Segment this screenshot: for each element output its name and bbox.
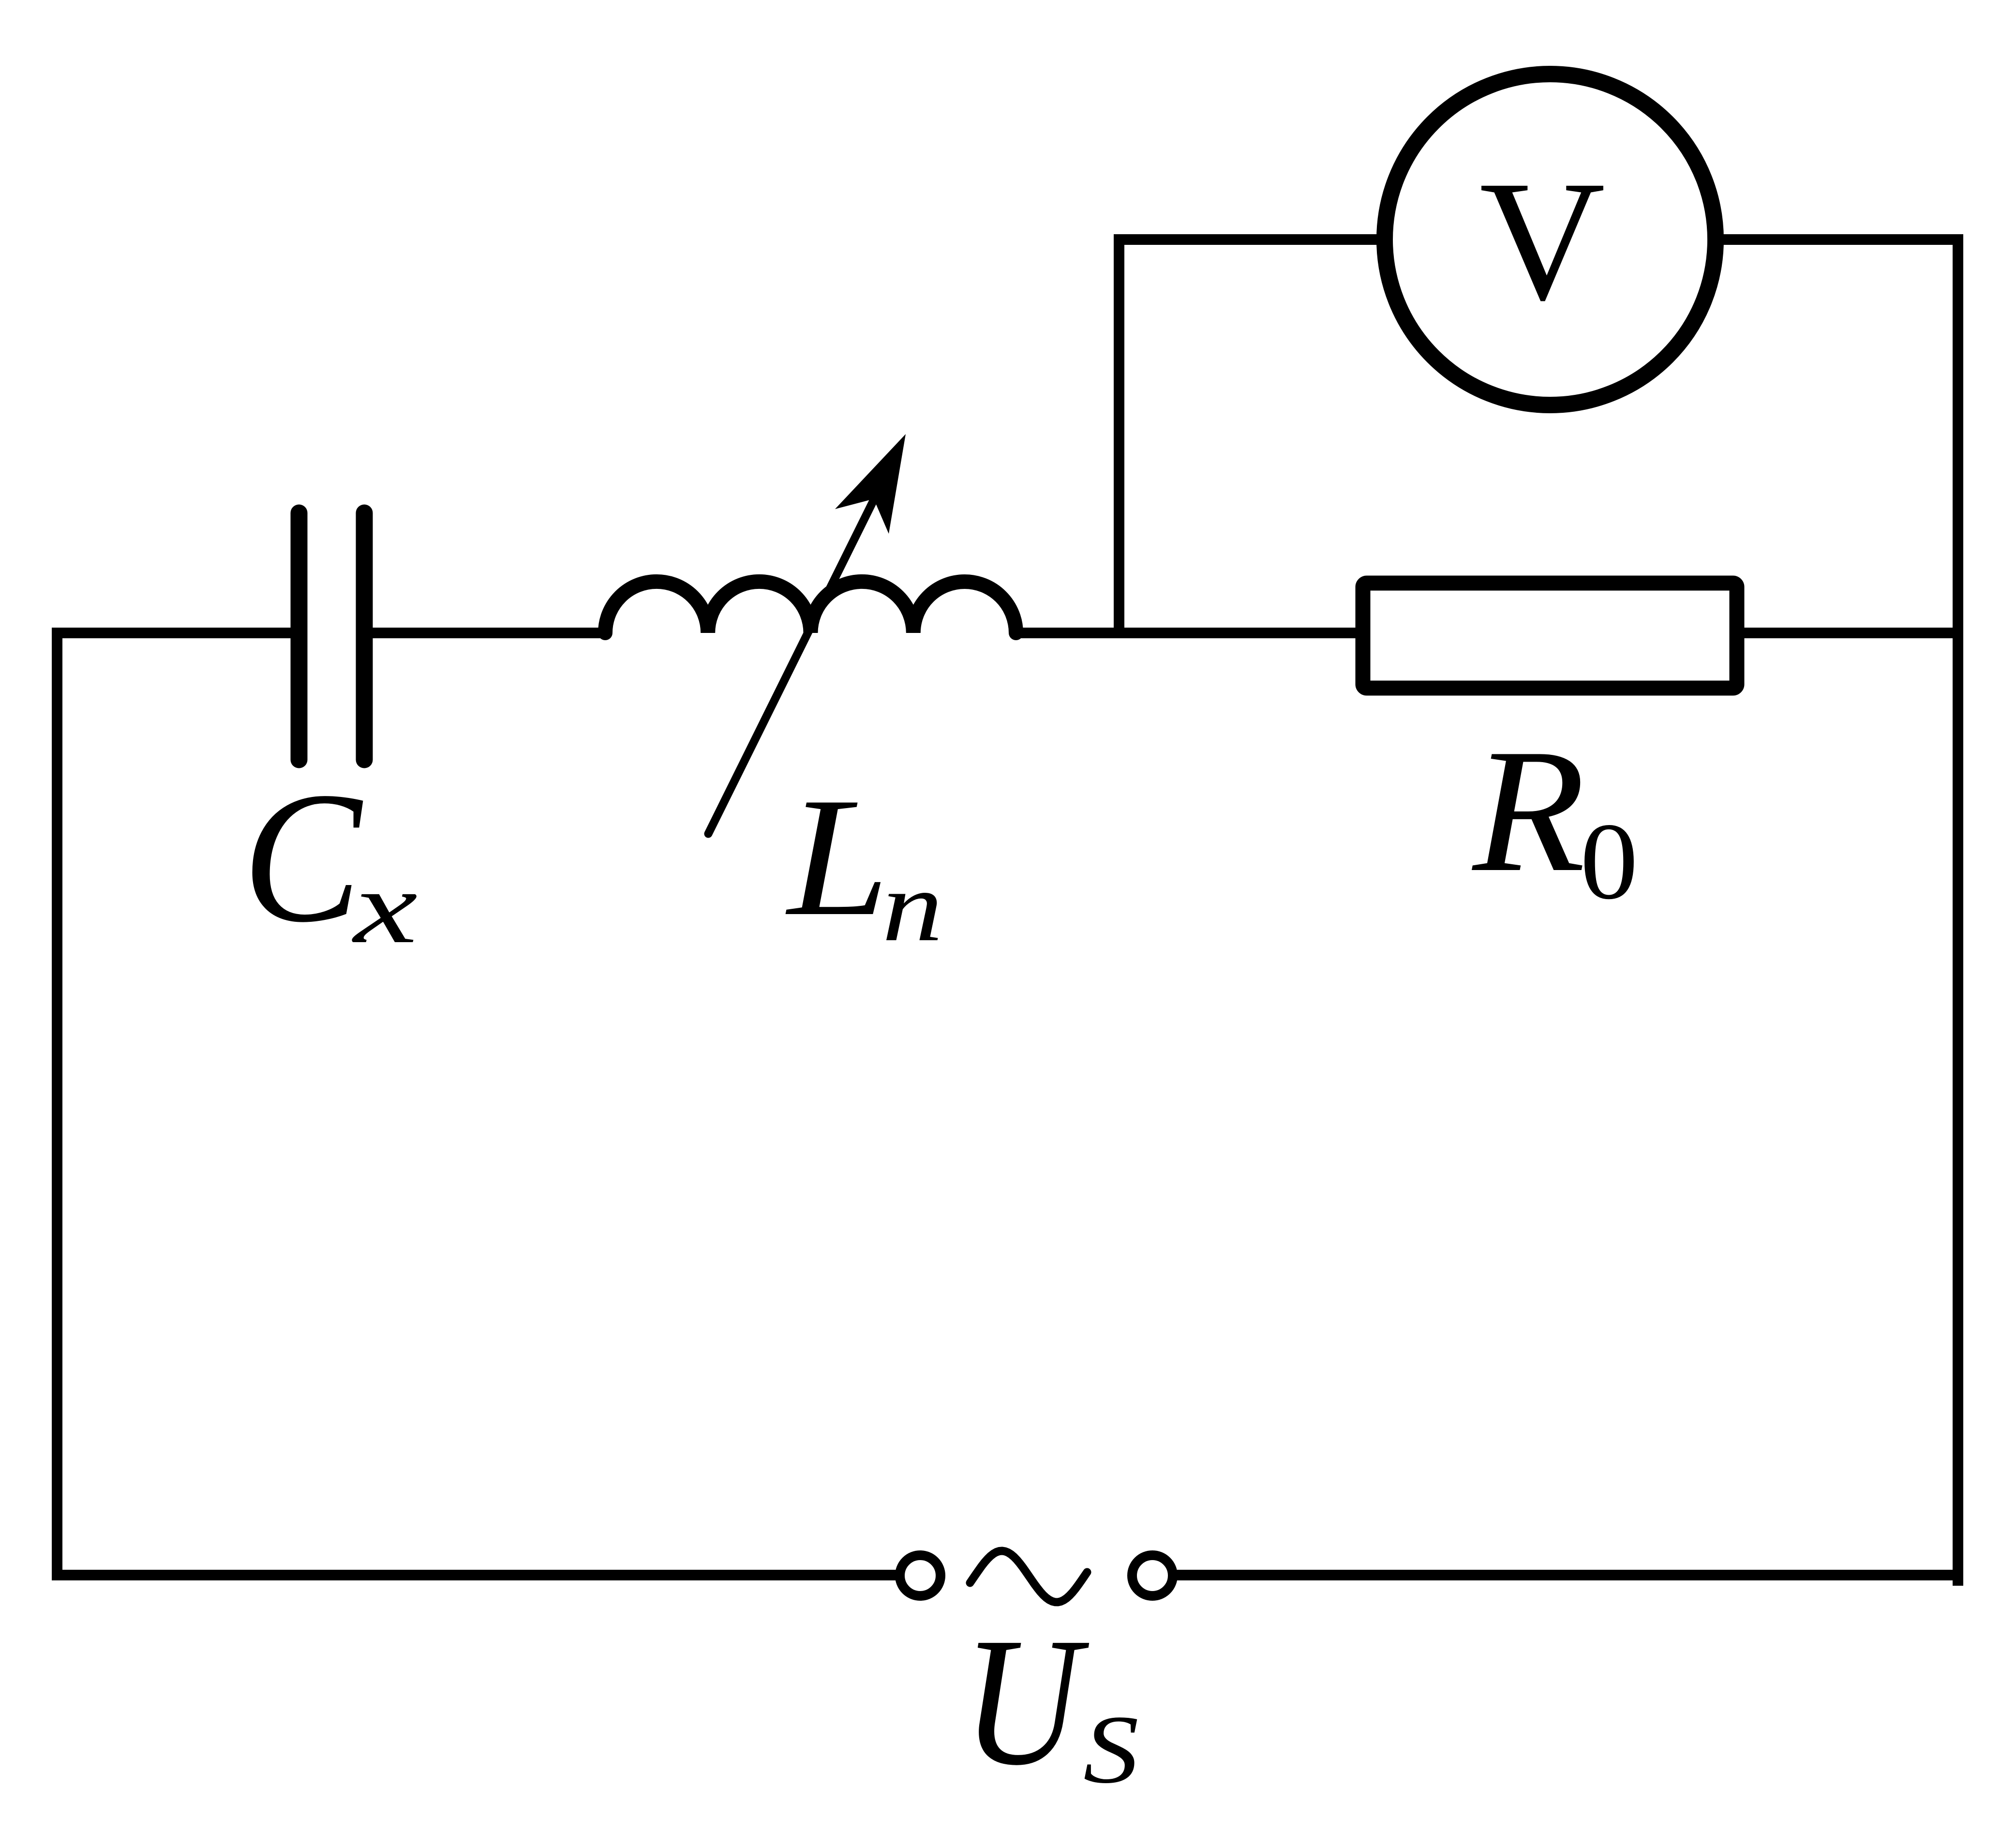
svg-text:n: n bbox=[882, 851, 943, 962]
svg-text:x: x bbox=[352, 849, 418, 965]
wire: inductor to resistor R0 bbox=[1014, 628, 1356, 638]
wire: bottom right segment from source terminal bbox=[1176, 1570, 1958, 1580]
AC source sine wave bbox=[970, 1551, 1087, 1602]
wire: resistor R0 to right branch bbox=[1744, 628, 1958, 638]
wire: top right segment from voltmeter to right branch bbox=[1723, 234, 1963, 245]
svg-text:V: V bbox=[1479, 146, 1605, 336]
wire: right vertical branch bbox=[1953, 240, 1963, 1580]
AC source left terminal circle bbox=[900, 1555, 941, 1596]
resistor R0 box bbox=[1363, 583, 1737, 688]
wire: top left segment from junction to voltmeter bbox=[1119, 234, 1377, 245]
voltmeter V circle bbox=[1385, 74, 1716, 405]
capacitor Cx left plate bbox=[291, 513, 308, 760]
wire: capacitor right plate to inductor bbox=[373, 628, 608, 638]
wire: junction vertical from top branch down to main wire bbox=[1114, 234, 1124, 633]
capacitor Cx right plate bbox=[356, 513, 373, 760]
wire: bottom left segment to source terminal bbox=[52, 1570, 896, 1580]
inductor Ln variable arrow shaft bbox=[708, 494, 877, 834]
svg-text:L: L bbox=[785, 763, 889, 951]
svg-text:C: C bbox=[242, 753, 365, 961]
wire: left vertical branch bbox=[52, 633, 62, 1575]
wire: main horizontal, left end to capacitor left plate bbox=[52, 628, 291, 638]
svg-text:0: 0 bbox=[1580, 801, 1638, 922]
AC source right terminal circle bbox=[1132, 1555, 1173, 1596]
inductor Ln coil bbox=[605, 582, 1016, 633]
svg-text:S: S bbox=[1083, 1695, 1139, 1803]
inductor Ln arrowhead bbox=[835, 434, 906, 534]
svg-text:U: U bbox=[963, 1600, 1090, 1803]
svg-text:R: R bbox=[1470, 713, 1585, 909]
